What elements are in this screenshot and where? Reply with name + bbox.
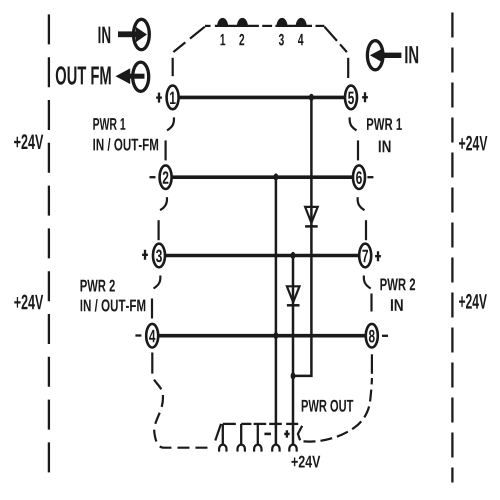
DIP switch label 2 [239, 34, 244, 46]
bus connector pin 3 arm [254, 423, 267, 425]
junction dot on wire 3 [291, 252, 296, 259]
outline hook below terminal 5 [350, 117, 357, 130]
terminal 5 circle [345, 86, 357, 110]
diode D1 cathode bar [305, 225, 318, 228]
terminal 3 circle [153, 244, 165, 268]
module outline: top edge dash segments [205, 25, 324, 27]
terminal 5 digit [348, 92, 354, 105]
terminal 8 digit [369, 330, 375, 343]
bus connector pin 3 stem [257, 424, 259, 445]
junction dot on wire 2 [274, 173, 279, 180]
module outline: dash below terminal 8 [371, 354, 373, 374]
terminal 2 digit [163, 171, 169, 184]
bus connector pin 1 loop [219, 445, 226, 452]
terminal 2 minus sign [150, 176, 156, 178]
terminal 3 plus sign [142, 250, 148, 260]
DIP switch bump 2 [237, 18, 248, 26]
label +24V left lower [14, 295, 43, 310]
DIP switch label 4 [298, 34, 304, 45]
terminal 8 minus sign [382, 335, 388, 337]
label +24V right lower [459, 294, 487, 309]
right boundary dashed line [451, 13, 453, 483]
bus connector pin 5 arm [286, 423, 298, 425]
IN input symbol top-right: circle [367, 41, 383, 70]
module outline: slash up to bus connector [215, 424, 221, 441]
terminal 7 circle [359, 244, 371, 268]
outline hook below terminal 2 [160, 197, 167, 210]
label IN right lower [391, 299, 403, 311]
bus connector pin 2 arm [241, 423, 251, 425]
label IN right upper [379, 141, 391, 153]
module outline: top-right diagonal dashes [324, 27, 348, 78]
wire vertical B from wire 2 to minus bus pin [275, 178, 278, 444]
outline dash above terminal 7 [365, 220, 367, 240]
module outline: hook right of bus connector [298, 426, 302, 441]
wire terminal 1 to terminal 5 [178, 96, 345, 100]
bus connector pin 3 loop [254, 445, 261, 452]
diode D1 triangle [305, 207, 318, 223]
DIP switch label 3 [279, 34, 284, 46]
wire terminal 3 to terminal 7 [165, 254, 360, 258]
wire vertical A with elbow to PWR OUT node [294, 98, 311, 376]
outline dash above terminal 8 [370, 294, 372, 312]
terminal 6 circle [353, 165, 365, 189]
wire terminal 4 to terminal 8 [158, 334, 366, 338]
bus connector pin 2 loop [238, 445, 245, 452]
IN input symbol top-right: shaft [382, 53, 401, 58]
terminal 7 digit [362, 250, 368, 262]
bus connector pin 4 arm [269, 423, 282, 425]
outline dash above terminal 6 [357, 140, 359, 160]
diode D2 triangle [287, 286, 300, 302]
label +24V right upper [459, 136, 487, 151]
module outline: bottom-right dashed edge [304, 378, 372, 442]
outline hook below terminal 3 [154, 276, 161, 289]
module outline: top-left diagonal dashes [173, 27, 205, 76]
label IN top-right [405, 46, 418, 63]
IN input symbol top-left: circle [134, 19, 150, 49]
label IN top-left [99, 27, 111, 43]
label PWR 2 right [380, 278, 415, 290]
label PWR 1 left [93, 118, 125, 130]
label +24V bottom [292, 456, 321, 468]
left boundary dashed line [48, 14, 50, 472]
bus connector pin 5 loop [289, 445, 296, 452]
label PWR 1 right [367, 118, 402, 130]
outline dash above terminal 4 [151, 299, 153, 319]
IN input symbol top-right: arrowhead [370, 48, 384, 63]
terminal 1 circle [167, 86, 179, 110]
DIP switch bump 4 [296, 18, 307, 26]
bus connector plus sign [284, 430, 289, 437]
module outline: dash below terminal 4 [151, 353, 153, 374]
bus connector pin 1 arm [223, 423, 236, 425]
label +24V left upper [14, 134, 43, 149]
outline hook below terminal 1 [167, 117, 174, 130]
terminal 1 digit [170, 92, 176, 104]
terminal 4 digit [149, 330, 155, 342]
outline hook below terminal 6 [358, 197, 365, 210]
DIP switch label 1 [221, 34, 226, 45]
terminal 2 circle [160, 165, 172, 189]
module outline: bottom-left dashed edge [152, 374, 211, 448]
bus connector pin 2 stem [240, 424, 242, 445]
terminal 7 plus sign [375, 251, 381, 261]
terminal 6 minus sign [367, 176, 373, 178]
outline dash above terminal 3 [158, 220, 160, 240]
OUT FM output symbol: shaft [130, 74, 145, 79]
outline hook below terminal 7 [364, 276, 371, 289]
bus connector pin 1 stem [222, 424, 224, 445]
terminal 3 digit [156, 250, 162, 263]
terminal 8 circle [366, 324, 378, 348]
OUT FM output symbol: arrowhead [116, 68, 131, 84]
label PWR OUT [302, 400, 354, 412]
diode D2 cathode bar [287, 304, 300, 307]
DIP switch bump 3 [277, 18, 288, 26]
bus connector pin 4 loop [272, 445, 279, 452]
terminal 4 minus sign [135, 334, 141, 336]
label IN / OUT-FM left upper [93, 138, 158, 151]
junction dot on wire 4 [274, 332, 279, 339]
label PWR 2 left [81, 280, 115, 292]
label OUT FM [56, 66, 111, 85]
terminal 1 plus sign [156, 93, 162, 103]
terminal 4 circle [146, 324, 158, 348]
terminal 5 plus sign [362, 92, 368, 102]
label IN / OUT-FM left lower [81, 299, 146, 312]
junction dot at PWR OUT node [291, 372, 296, 379]
wire vertical C from wire 3 to plus bus pin [292, 257, 295, 445]
DIP switch bump 1 [217, 18, 228, 26]
bus connector minus sign [264, 433, 271, 436]
OUT FM output symbol: circle [133, 62, 149, 91]
terminal 6 digit [356, 171, 362, 184]
IN input symbol top-left: shaft [118, 31, 138, 37]
wire terminal 2 to terminal 6 [171, 175, 353, 179]
outline dash above terminal 2 [165, 140, 167, 160]
IN input symbol top-left: arrowhead [136, 27, 147, 42]
junction dot on wire 1 [309, 94, 314, 101]
